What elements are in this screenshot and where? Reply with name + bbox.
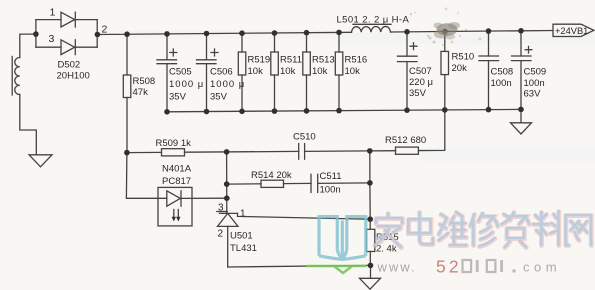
svg-text:47k: 47k bbox=[133, 87, 149, 98]
svg-text:C505: C505 bbox=[169, 67, 192, 78]
svg-text:20k: 20k bbox=[452, 63, 468, 74]
svg-text:R510: R510 bbox=[452, 52, 475, 63]
svg-text:TL431: TL431 bbox=[230, 243, 257, 254]
svg-text:www.: www. bbox=[377, 260, 417, 275]
svg-text:C507: C507 bbox=[409, 66, 432, 77]
svg-text:L501 2. 2 μ H-A: L501 2. 2 μ H-A bbox=[337, 14, 410, 25]
svg-text:R509 1k: R509 1k bbox=[156, 138, 192, 149]
svg-text:3: 3 bbox=[49, 33, 55, 45]
svg-text:PC817: PC817 bbox=[162, 176, 191, 187]
svg-text:R516: R516 bbox=[345, 55, 368, 66]
svg-text:100n: 100n bbox=[320, 184, 341, 195]
svg-text:100n: 100n bbox=[491, 78, 512, 89]
svg-text:R514 20k: R514 20k bbox=[251, 170, 292, 181]
svg-text:com: com bbox=[523, 260, 561, 275]
svg-text:R508: R508 bbox=[133, 76, 156, 87]
svg-text:10k: 10k bbox=[280, 66, 296, 77]
svg-text:1: 1 bbox=[50, 7, 56, 19]
svg-text:2: 2 bbox=[218, 228, 224, 239]
svg-text:1: 1 bbox=[240, 209, 246, 220]
svg-text:R519: R519 bbox=[248, 55, 271, 66]
svg-text:3: 3 bbox=[218, 203, 224, 214]
svg-text:63V: 63V bbox=[524, 89, 542, 100]
svg-text:C511: C511 bbox=[320, 171, 342, 182]
svg-text:2: 2 bbox=[102, 24, 108, 36]
svg-text:35V: 35V bbox=[409, 88, 427, 99]
svg-text:R511: R511 bbox=[280, 55, 302, 66]
svg-text:10k: 10k bbox=[248, 66, 264, 77]
svg-text:10k: 10k bbox=[345, 66, 361, 77]
svg-text:20H100: 20H100 bbox=[57, 71, 90, 82]
svg-text:R513: R513 bbox=[312, 55, 335, 66]
svg-text:220 μ: 220 μ bbox=[409, 77, 433, 88]
svg-text:52: 52 bbox=[436, 257, 462, 277]
svg-text:100n: 100n bbox=[524, 78, 545, 89]
svg-text:10k: 10k bbox=[312, 66, 328, 77]
svg-text:+24VB1: +24VB1 bbox=[555, 26, 588, 36]
svg-text:U501: U501 bbox=[230, 231, 253, 242]
svg-text:C510: C510 bbox=[293, 131, 316, 142]
svg-text:C508: C508 bbox=[491, 66, 514, 77]
svg-text:N401A: N401A bbox=[162, 164, 192, 175]
svg-text:C506: C506 bbox=[210, 67, 233, 78]
svg-text:1000 μ: 1000 μ bbox=[169, 79, 204, 90]
svg-text:D502: D502 bbox=[58, 60, 81, 71]
svg-text:35V: 35V bbox=[210, 92, 228, 103]
svg-text:35V: 35V bbox=[169, 92, 187, 103]
svg-text:1000 μ: 1000 μ bbox=[210, 79, 245, 90]
svg-text:C509: C509 bbox=[524, 66, 547, 77]
svg-text:R512 680: R512 680 bbox=[385, 135, 426, 146]
